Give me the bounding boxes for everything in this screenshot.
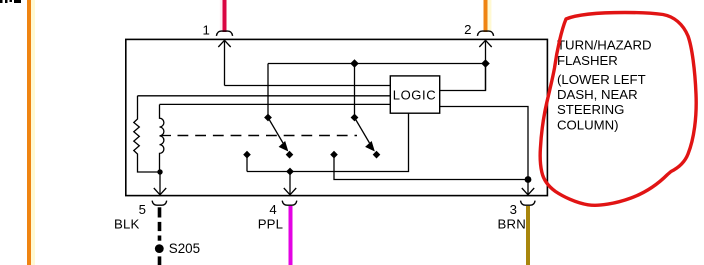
svg-text:1: 1 (202, 23, 209, 38)
wire: vertical drop to switch 2 pivot (354, 64, 356, 118)
wire: pin 1 crimson (PNK) wire from top (220, 0, 223, 32)
wire: pin 5 black dashed wire (158, 207, 162, 265)
svg-text:4: 4 (269, 202, 276, 217)
svg-text:FLASHER: FLASHER (557, 53, 618, 68)
resistor R (zigzag) with leads (134, 96, 160, 172)
svg-text:BLK: BLK (114, 217, 140, 232)
text fragment top-left corner (cut off glyph bottoms) (0, 0, 21, 3)
pin 3 connector arc (below box) (521, 201, 536, 206)
svg-text:(LOWER LEFT: (LOWER LEFT (557, 72, 646, 87)
switch 1 pivot diamond (264, 114, 272, 122)
wire: pin 2 orange wire from top (484, 0, 488, 32)
splice S205 dot (155, 244, 164, 253)
coil L (inductor arcs) with leads (160, 105, 164, 173)
junction diamond at bus/switch2 drop (350, 59, 359, 68)
svg-text:2: 2 (464, 22, 471, 37)
svg-text:5: 5 (139, 202, 146, 217)
switch 1 blade with arrowhead (268, 118, 288, 151)
wire: switch2 left contact down and right to pin3 node (334, 155, 528, 180)
annotation text TURN/HAZARD FLASHER (557, 37, 652, 132)
wire: top distribution bus y=63.5 from x=268 to pin2 line (268, 63, 486, 65)
svg-text:LOGIC: LOGIC (393, 87, 436, 102)
switch 2 pivot diamond (351, 114, 359, 122)
pin 2 connector arc (477, 31, 493, 36)
wire highlight band (cream) next to left orange wire (31, 0, 35, 265)
flasher module box outline (126, 39, 548, 195)
wire: coil feed horizontal to LOGIC left (160, 103, 391, 105)
junction diamond at bus/pin2 line (481, 59, 490, 68)
junction dot pin3 node (525, 176, 532, 183)
wire highlight band (cream) next to pin 2 orange wire (487, 0, 491, 32)
pin 5 arrow (out of box) (154, 172, 166, 195)
wire: LOGIC right output up to pin2 node (440, 64, 486, 91)
svg-text:PPL: PPL (258, 217, 284, 232)
wire: pin 3 brown/dark-yellow wire (526, 206, 530, 265)
wire: pin1 feed horizontal to LOGIC left (225, 85, 391, 87)
pin 1 arrow (into box) (218, 40, 230, 85)
pin 4 arrow (out of box) (284, 172, 296, 195)
switch 1 moving contact diamond (286, 151, 294, 159)
svg-text:TURN/HAZARD: TURN/HAZARD (557, 37, 652, 52)
dashed mechanical linkage line (178, 135, 358, 137)
switch 2 blade with arrowhead (355, 118, 375, 151)
switch 2 left contact diamond (330, 151, 338, 159)
wire: resistor feed horizontal to LOGIC left (138, 95, 391, 97)
wire: pin 4 purple wire (289, 206, 293, 265)
pin 3 arrow (out of box) (522, 180, 534, 195)
svg-text:DASH, NEAR: DASH, NEAR (557, 87, 638, 102)
junction diamond rail/pin4 (286, 168, 294, 176)
svg-text:S205: S205 (169, 241, 200, 256)
svg-text:3: 3 (510, 202, 517, 217)
wire: switch1 left contact down to rail (246, 155, 248, 172)
svg-text:COLUMN): COLUMN) (557, 117, 619, 132)
mechanical link tick from coil (162, 135, 171, 137)
svg-text:BRN: BRN (498, 217, 526, 232)
pin 5 connector arc (below box) (152, 201, 167, 206)
LOGIC box (390, 76, 439, 113)
wire: LOGIC bottom output down then left to switch contacts rail (247, 113, 409, 171)
switch 1 left contact diamond (243, 151, 251, 159)
wire: vertical drop to switch 1 pivot (267, 64, 269, 118)
red hand-drawn circle annotation (540, 13, 696, 206)
junction dot resistor/coil bottom (157, 169, 162, 174)
pin 4 connector arc (below box) (282, 201, 297, 206)
wire: LOGIC right output to pin 3 drop (440, 107, 528, 180)
svg-text:STEERING: STEERING (557, 102, 624, 117)
switch 2 moving contact diamond (373, 151, 381, 159)
pin 1 connector arc (216, 31, 232, 36)
pin 2 arrow (into box) (479, 40, 491, 90)
wire: left vertical orange wire (27, 0, 31, 265)
